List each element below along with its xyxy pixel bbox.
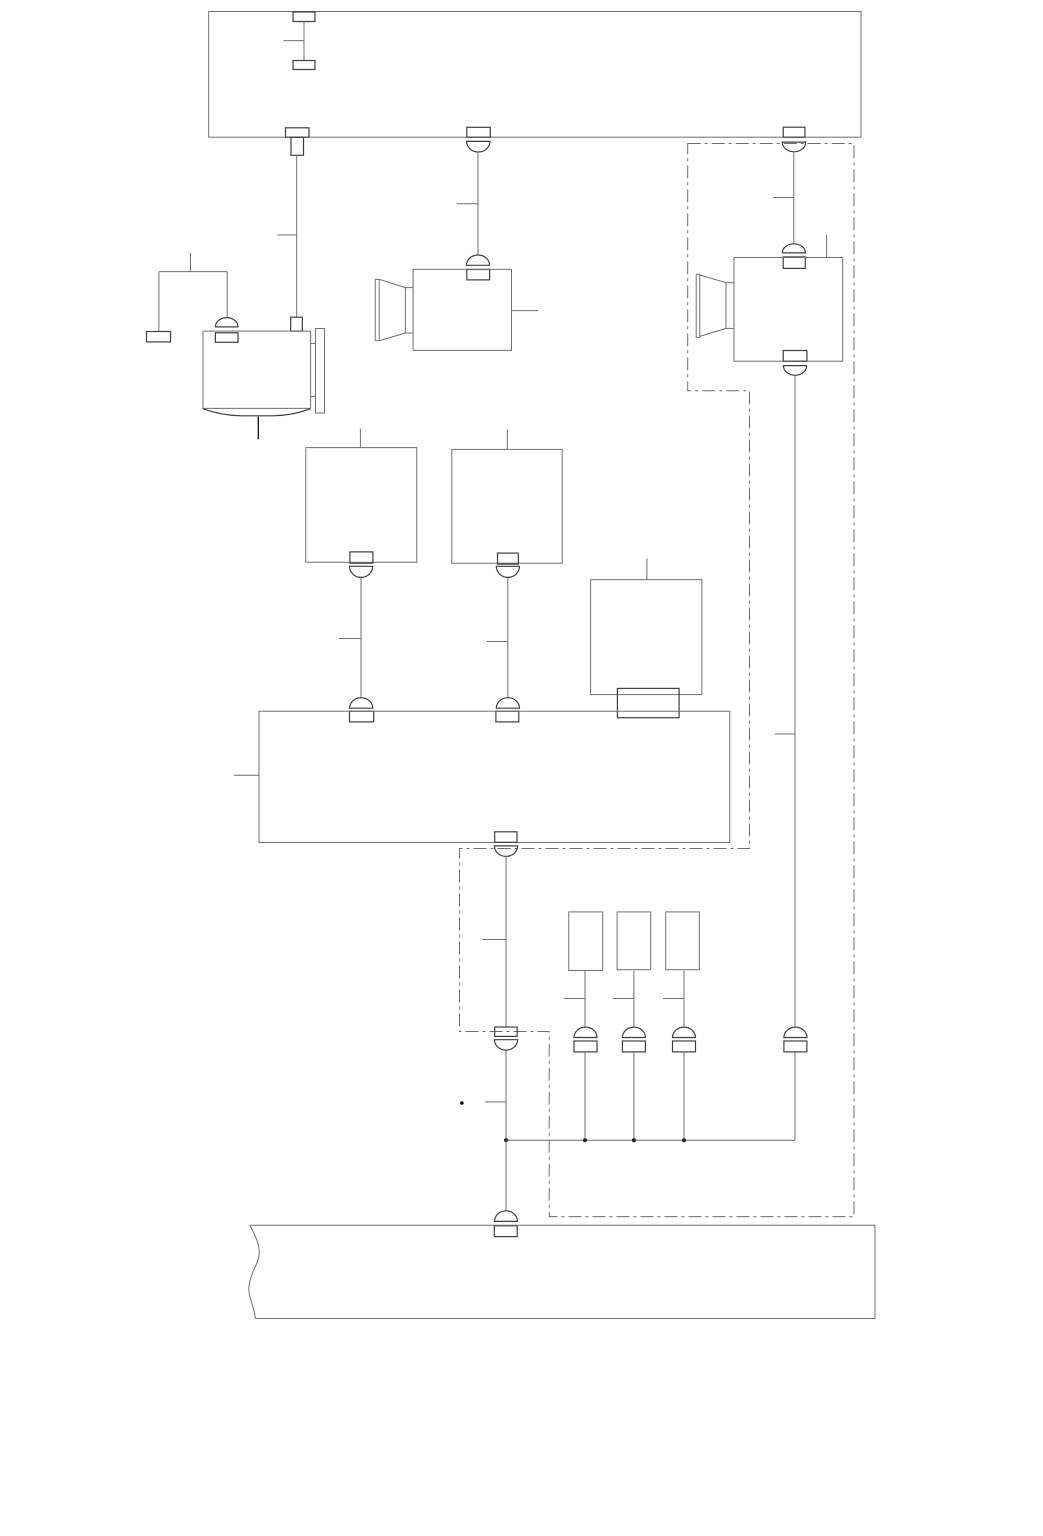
inline connector (rect + dome) xyxy=(494,1027,517,1050)
ground bus xyxy=(506,1139,795,1141)
wire W1 fuse box to fog lamp xyxy=(278,155,297,317)
module box xyxy=(591,559,702,695)
body ground connector xyxy=(494,1211,517,1237)
junction node 1 xyxy=(504,1138,508,1142)
control unit xyxy=(234,711,730,842)
control unit connector B xyxy=(496,698,520,722)
indicator 1 connector xyxy=(574,1027,597,1052)
wire W5 control unit down xyxy=(483,856,507,1027)
stray mark xyxy=(460,1101,464,1105)
wire indicator 3 xyxy=(663,971,684,1027)
fuse F1 xyxy=(284,12,316,70)
relay 2 xyxy=(452,429,562,563)
wire relay 2 to control unit xyxy=(487,578,508,698)
horn 1 lead stub xyxy=(512,310,539,312)
body / chassis band xyxy=(250,1225,875,1318)
wire indicator 3 to bus xyxy=(683,1052,685,1140)
relay 2 bottom connector xyxy=(496,553,519,577)
module block connector xyxy=(617,688,679,717)
wire indicator 1 xyxy=(564,971,585,1028)
harness boundary (dash-dot) xyxy=(460,144,855,1217)
wire indicator 1 to bus xyxy=(584,1052,586,1140)
junction node 2 xyxy=(583,1138,587,1142)
junction connector (horn 2 circuit) xyxy=(784,1027,807,1052)
junction node 3 xyxy=(632,1138,636,1142)
connector C2 (fuse box, middle terminal) xyxy=(467,127,491,152)
horn 1 connector xyxy=(466,255,489,280)
fog lamp bracket xyxy=(311,329,325,414)
fog lamp body xyxy=(203,331,311,416)
fog lamp connector (dome + socket) xyxy=(215,318,238,343)
fog lamp blade terminal xyxy=(291,317,303,331)
horn 2 connector xyxy=(782,244,805,269)
wire W3 fuse box to horn 2 xyxy=(773,152,794,244)
relay 1 xyxy=(306,429,417,563)
wire W4 horn 2 to junction connector xyxy=(775,375,795,1027)
indicator 3 connector xyxy=(673,1027,696,1052)
chassis break line xyxy=(249,1225,259,1318)
wire relay 1 to control unit xyxy=(339,577,361,697)
horn 2 body xyxy=(696,235,843,361)
connector C3 (fuse box, right terminal) xyxy=(782,127,805,152)
control unit connector A xyxy=(350,698,374,722)
connector C1 (fuse box, left terminal) xyxy=(286,128,310,156)
wire indicator 2 xyxy=(613,971,634,1027)
indicator 3 xyxy=(666,912,700,970)
junction node 4 xyxy=(682,1138,686,1142)
relay 1 bottom connector xyxy=(350,552,373,578)
wire indicator 2 to bus xyxy=(633,1052,635,1140)
control unit bottom connector xyxy=(494,832,517,857)
wire junction connector to bus xyxy=(794,1052,796,1140)
indicator 2 connector xyxy=(622,1027,645,1052)
fog lamp ground lead xyxy=(257,417,259,440)
indicator 1 xyxy=(569,912,603,971)
horn 2 bottom connector xyxy=(783,351,807,376)
ground strap terminal xyxy=(147,332,171,342)
indicator 2 xyxy=(617,912,651,970)
horn 1 body xyxy=(375,269,511,350)
fuse box (top) xyxy=(209,12,861,138)
wire W2 fuse box to horn 1 xyxy=(457,152,478,255)
wire bus to body ground xyxy=(505,1140,507,1211)
ground wire G1 xyxy=(159,253,227,332)
wire W6 to bus xyxy=(485,1050,506,1140)
